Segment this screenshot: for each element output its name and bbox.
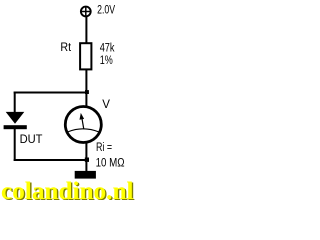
meter scale arc (68, 129, 100, 132)
ground bar (75, 171, 96, 179)
svg-text:colandino.nl: colandino.nl (1, 178, 134, 200)
svg-text:Rt: Rt (60, 40, 71, 54)
wire diode cathode down (14, 129, 16, 161)
wire horizontal bottom branch (14, 159, 87, 161)
wire meter to bottom junction (85, 140, 87, 161)
junction dot bottom (85, 158, 89, 162)
wire bottom junction to ground (85, 160, 87, 172)
meter circle V (65, 107, 101, 143)
junction dot top (85, 90, 89, 94)
svg-text:1%: 1% (100, 53, 113, 67)
svg-text:2.0V: 2.0V (97, 2, 116, 16)
wire left vertical to diode anode (14, 92, 16, 113)
wire from terminal to resistor (85, 14, 87, 44)
resistor Rt (80, 43, 91, 69)
supply terminal plus (81, 7, 91, 17)
wire resistor to top junction (85, 70, 87, 93)
svg-text:10 MΩ: 10 MΩ (96, 156, 125, 170)
meter needle (82, 118, 84, 130)
diode DUT triangle (6, 112, 25, 124)
wire horizontal top branch (14, 92, 87, 94)
svg-text:Ri =: Ri = (96, 140, 112, 154)
svg-text:V: V (102, 97, 110, 111)
wire top junction to meter (85, 92, 87, 110)
svg-text:DUT: DUT (20, 132, 43, 146)
diode cathode bar (4, 125, 27, 129)
meter needle arrowhead (80, 113, 85, 120)
